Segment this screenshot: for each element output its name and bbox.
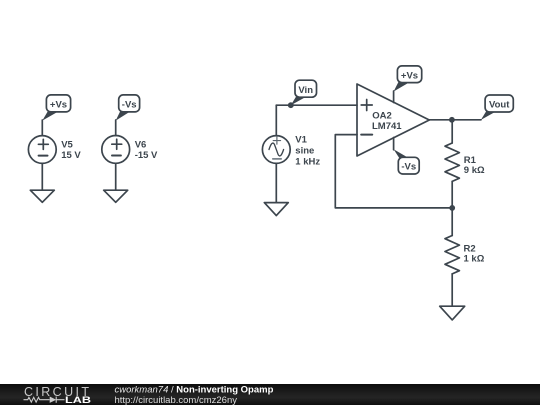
svg-text:1 kHz: 1 kHz (295, 157, 320, 168)
svg-text:+Vs: +Vs (50, 100, 67, 111)
svg-text:V1: V1 (295, 135, 307, 146)
svg-text:http://circuitlab.com/cmz26ny: http://circuitlab.com/cmz26ny (115, 395, 238, 405)
svg-text:-Vs: -Vs (122, 100, 137, 111)
svg-text:1 kΩ: 1 kΩ (464, 254, 485, 265)
svg-text:sine: sine (295, 146, 314, 157)
svg-text:LM741: LM741 (372, 121, 402, 132)
svg-text:+Vs: +Vs (401, 70, 418, 81)
svg-text:15 V: 15 V (61, 150, 81, 161)
svg-text:-Vs: -Vs (401, 162, 416, 173)
svg-text:cworkman74 / Non-inverting Opa: cworkman74 / Non-inverting Opamp (115, 384, 274, 395)
svg-text:OA2: OA2 (372, 110, 392, 121)
svg-text:9 kΩ: 9 kΩ (464, 165, 485, 176)
svg-text:-15 V: -15 V (135, 150, 158, 161)
svg-text:Vout: Vout (489, 100, 510, 111)
svg-text:Vin: Vin (298, 85, 313, 96)
svg-text:LAB: LAB (65, 395, 91, 405)
